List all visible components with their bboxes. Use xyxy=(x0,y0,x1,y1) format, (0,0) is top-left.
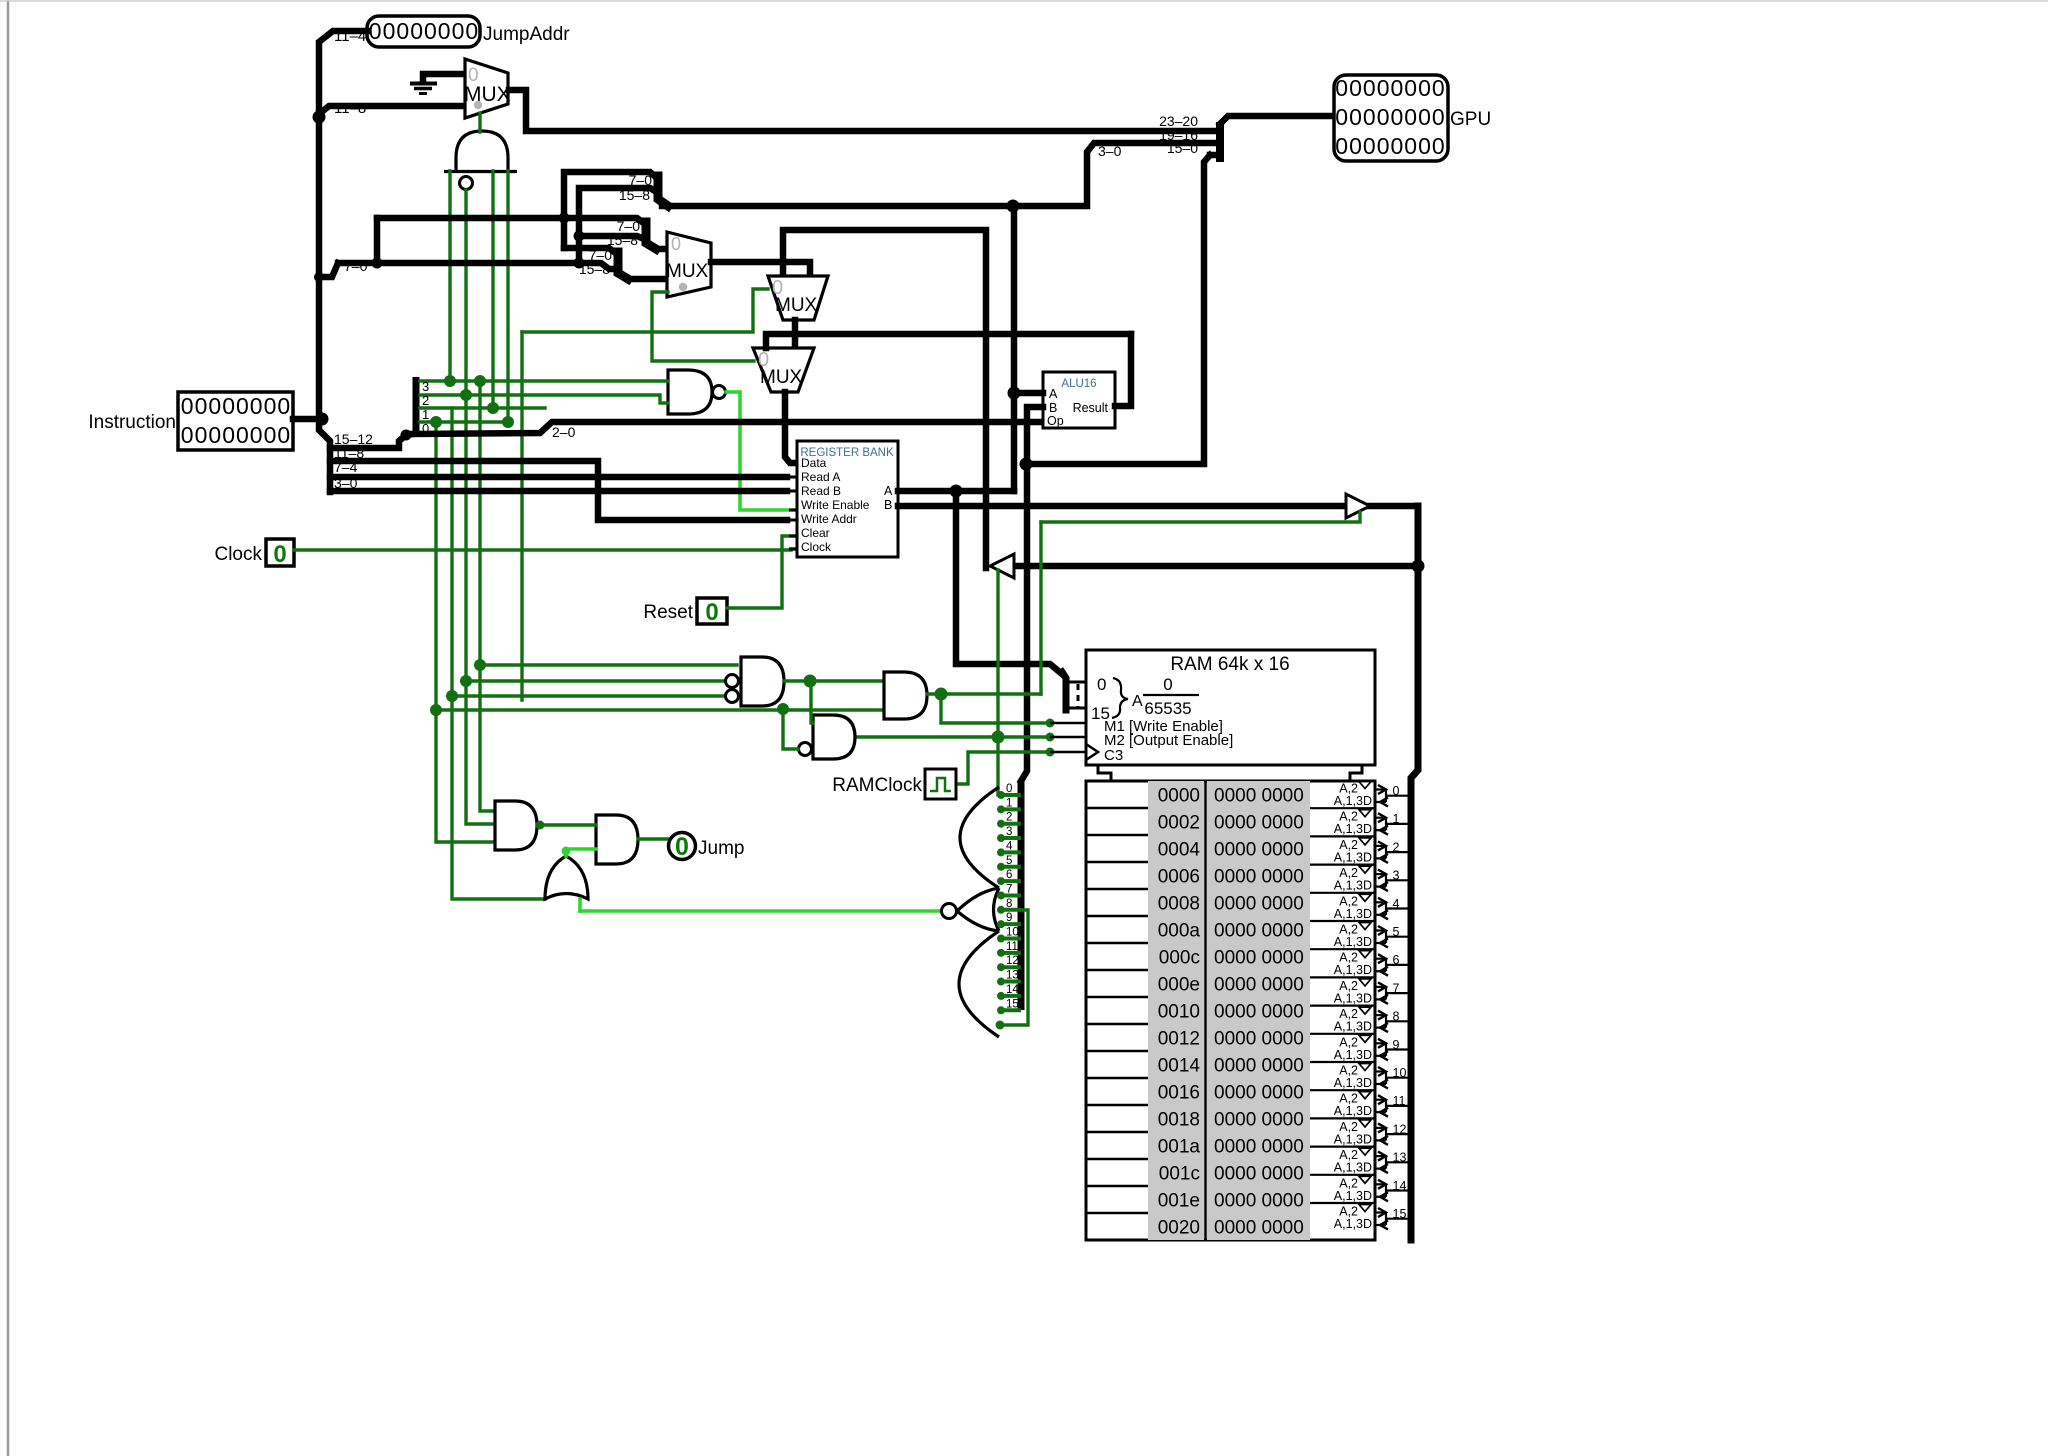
svg-text:0010: 0010 xyxy=(1158,1002,1200,1023)
wire xyxy=(566,849,596,856)
node W2-x466 xyxy=(460,389,472,401)
svg-text:0: 0 xyxy=(369,18,382,44)
svg-text:0: 0 xyxy=(671,234,681,254)
svg-text:10: 10 xyxy=(1006,927,1019,939)
wire xyxy=(506,171,509,422)
output pin GPU xyxy=(1334,75,1448,161)
wire xyxy=(537,823,596,826)
splitter S1 bar xyxy=(413,377,420,434)
wire xyxy=(452,408,545,899)
svg-text:0: 0 xyxy=(396,18,409,44)
wire xyxy=(941,694,1050,723)
pin D7 xyxy=(1000,893,1021,897)
svg-text:Jump: Jump xyxy=(698,838,744,859)
svg-text:A,1,3D: A,1,3D xyxy=(1334,1104,1372,1118)
svg-text:0: 0 xyxy=(1363,104,1376,130)
wire xyxy=(792,320,799,348)
pin xyxy=(1035,420,1043,423)
negation bubble xyxy=(726,690,739,703)
pin D3 xyxy=(1000,836,1021,840)
svg-text:0: 0 xyxy=(1418,133,1431,159)
svg-text:000a: 000a xyxy=(1158,921,1201,942)
svg-text:0000: 0000 xyxy=(1158,786,1200,807)
port 13 xyxy=(1310,1145,1374,1147)
wire xyxy=(1014,563,1418,570)
svg-text:1: 1 xyxy=(422,407,429,422)
svg-text:A,1,3D: A,1,3D xyxy=(1334,850,1372,864)
wire xyxy=(1011,206,1018,491)
screen left border xyxy=(7,0,10,1456)
svg-text:0000 0000: 0000 0000 xyxy=(1214,1029,1304,1050)
port 6 xyxy=(1310,948,1374,950)
svg-text:11: 11 xyxy=(1006,941,1018,953)
pin xyxy=(789,462,797,465)
pin xyxy=(1115,405,1123,408)
svg-text:0: 0 xyxy=(1404,75,1417,101)
svg-text:0: 0 xyxy=(1377,75,1390,101)
svg-text:0: 0 xyxy=(236,422,249,448)
table line xyxy=(1086,1104,1148,1107)
svg-text:Clock: Clock xyxy=(801,540,832,554)
table line xyxy=(1086,861,1148,864)
svg-text:A,1,3D: A,1,3D xyxy=(1334,991,1372,1005)
node W0-x508 xyxy=(502,416,514,428)
table line xyxy=(1086,1158,1148,1161)
port 12 xyxy=(1310,1117,1374,1119)
pin D8 xyxy=(1000,908,1021,912)
svg-text:0000 0000: 0000 0000 xyxy=(1214,813,1304,834)
wire xyxy=(412,422,1043,434)
wire xyxy=(1041,512,1360,522)
wire xyxy=(564,248,618,255)
pin xyxy=(1066,681,1086,684)
wire xyxy=(480,381,495,811)
wire xyxy=(1039,522,1042,694)
svg-text:0: 0 xyxy=(438,18,451,44)
wire xyxy=(785,392,797,463)
svg-text:0: 0 xyxy=(181,422,194,448)
wire xyxy=(784,679,884,682)
wire xyxy=(420,420,510,423)
wire xyxy=(491,171,494,408)
svg-text:0: 0 xyxy=(705,599,718,626)
wire xyxy=(330,434,413,448)
svg-text:MUX: MUX xyxy=(464,83,511,106)
svg-text:JumpAddr: JumpAddr xyxy=(483,24,570,45)
pin xyxy=(789,476,797,479)
clock source RAMClock xyxy=(925,769,956,799)
node xyxy=(1020,458,1033,471)
svg-text:0: 0 xyxy=(1163,675,1172,694)
port 1 xyxy=(1310,807,1374,809)
wire xyxy=(1031,155,1210,464)
svg-text:0018: 0018 xyxy=(1158,1110,1200,1131)
wire xyxy=(319,106,465,114)
pin D2 xyxy=(1000,822,1021,826)
svg-text:0000 0000: 0000 0000 xyxy=(1214,1110,1304,1131)
table connector left xyxy=(1098,765,1111,781)
svg-text:5: 5 xyxy=(1006,855,1012,867)
node xyxy=(446,690,458,702)
node xyxy=(935,688,948,701)
svg-text:7: 7 xyxy=(1006,883,1012,895)
table line xyxy=(1086,996,1148,999)
svg-text:0000 0000: 0000 0000 xyxy=(1214,1191,1304,1212)
svg-text:0: 0 xyxy=(1363,133,1376,159)
svg-text:11–8: 11–8 xyxy=(334,100,366,117)
svg-text:2: 2 xyxy=(1006,812,1012,824)
wire xyxy=(420,379,668,382)
svg-text:15–8: 15–8 xyxy=(619,187,650,203)
node W1-x493 xyxy=(487,402,499,414)
svg-text:0: 0 xyxy=(208,393,221,419)
wire xyxy=(638,837,668,840)
wire xyxy=(294,549,797,550)
svg-text:3–0: 3–0 xyxy=(1098,143,1122,159)
svg-text:Result: Result xyxy=(1073,401,1109,415)
mux MUX1 xyxy=(465,59,508,118)
svg-text:001a: 001a xyxy=(1158,1137,1201,1158)
pin xyxy=(1035,392,1043,395)
svg-text:0: 0 xyxy=(1391,133,1404,159)
wire xyxy=(478,113,481,132)
wire xyxy=(662,203,1013,210)
svg-text:0012: 0012 xyxy=(1158,1029,1200,1050)
pin xyxy=(898,504,906,507)
input button Clock xyxy=(266,539,294,566)
wire xyxy=(452,694,726,697)
wire xyxy=(955,752,1050,784)
pin xyxy=(1050,722,1086,725)
node xyxy=(372,258,383,269)
node xyxy=(1412,560,1425,573)
svg-text:0: 0 xyxy=(222,393,235,419)
svg-text:0: 0 xyxy=(277,393,290,419)
svg-text:12: 12 xyxy=(1006,955,1019,967)
wire xyxy=(509,90,1216,131)
svg-text:0008: 0008 xyxy=(1158,894,1200,915)
wire xyxy=(564,172,658,248)
wire xyxy=(466,395,495,824)
svg-text:0: 0 xyxy=(264,422,277,448)
svg-text:0: 0 xyxy=(424,18,437,44)
port 9 xyxy=(1310,1033,1374,1035)
svg-text:001e: 001e xyxy=(1158,1191,1200,1212)
tunnel arrow right xyxy=(1346,494,1370,518)
port 14 xyxy=(1310,1174,1374,1176)
svg-text:0000 0000: 0000 0000 xyxy=(1214,1056,1304,1077)
table line xyxy=(1086,1131,1148,1134)
wire xyxy=(464,190,467,395)
svg-text:0: 0 xyxy=(675,833,689,861)
wire xyxy=(466,679,726,682)
svg-text:0: 0 xyxy=(1006,783,1012,795)
pin xyxy=(1035,406,1043,409)
wire xyxy=(1220,116,1334,124)
node xyxy=(804,675,817,688)
svg-text:0: 0 xyxy=(1377,104,1390,130)
wire xyxy=(811,679,813,723)
wire xyxy=(579,188,658,262)
port 8 xyxy=(1310,1004,1374,1006)
table line xyxy=(1086,1023,1148,1026)
svg-text:ALU16: ALU16 xyxy=(1061,378,1096,390)
svg-text:Clock: Clock xyxy=(214,544,262,565)
svg-text:0: 0 xyxy=(236,393,249,419)
svg-text:A,1,3D: A,1,3D xyxy=(1334,963,1372,977)
wire xyxy=(855,735,1050,738)
wire xyxy=(927,692,1041,695)
pin D12 xyxy=(1000,965,1021,969)
svg-text:0014: 0014 xyxy=(1158,1056,1201,1077)
pin xyxy=(1066,707,1086,710)
svg-text:0020: 0020 xyxy=(1158,1218,1200,1239)
wire xyxy=(996,570,999,795)
wire xyxy=(374,218,381,263)
svg-text:0000 0000: 0000 0000 xyxy=(1214,975,1304,996)
svg-text:3: 3 xyxy=(422,379,429,394)
svg-text:0006: 0006 xyxy=(1158,867,1200,888)
svg-text:0016: 0016 xyxy=(1158,1083,1200,1104)
wire xyxy=(898,503,1418,510)
svg-text:000c: 000c xyxy=(1159,948,1200,969)
pin xyxy=(789,490,797,493)
node xyxy=(950,485,963,498)
table line xyxy=(1086,888,1148,891)
svg-text:Read A: Read A xyxy=(801,470,840,484)
pin xyxy=(789,509,797,512)
svg-text:15–8: 15–8 xyxy=(579,261,610,277)
svg-text:A,1,3D: A,1,3D xyxy=(1334,879,1372,893)
wire xyxy=(1014,390,1043,397)
svg-text:2–0: 2–0 xyxy=(552,424,576,440)
svg-text:Write Addr: Write Addr xyxy=(801,512,857,526)
svg-text:0: 0 xyxy=(1432,75,1445,101)
port 10 xyxy=(1310,1061,1374,1063)
svg-text:0: 0 xyxy=(1391,75,1404,101)
splitter merger Mb xyxy=(646,222,656,249)
svg-text:0000 0000: 0000 0000 xyxy=(1214,921,1304,942)
svg-text:0: 0 xyxy=(1391,104,1404,130)
ground xyxy=(423,74,465,81)
svg-text:MUX: MUX xyxy=(666,261,709,282)
table line xyxy=(1086,969,1148,972)
pin xyxy=(789,519,797,522)
node xyxy=(430,704,442,716)
svg-text:0: 0 xyxy=(273,541,286,568)
svg-text:C3: C3 xyxy=(1104,747,1123,764)
port 7 xyxy=(1310,976,1374,978)
svg-text:A: A xyxy=(1049,387,1058,401)
nor gate NOR16 xyxy=(960,787,999,888)
svg-text:0000 0000: 0000 0000 xyxy=(1214,867,1304,888)
node W3-x480 xyxy=(474,375,486,387)
svg-text:0000 0000: 0000 0000 xyxy=(1214,1002,1304,1023)
port 15 xyxy=(1310,1202,1374,1204)
ram RAM 64k x 16 xyxy=(1086,650,1375,765)
svg-text:0: 0 xyxy=(277,422,290,448)
wire xyxy=(652,292,754,361)
svg-text:14: 14 xyxy=(1006,984,1019,996)
svg-text:0000 0000: 0000 0000 xyxy=(1214,1218,1304,1239)
wire xyxy=(726,392,797,510)
svg-text:8: 8 xyxy=(1006,898,1012,910)
svg-text:RAMClock: RAMClock xyxy=(832,775,922,796)
pin xyxy=(789,535,797,538)
svg-text:Instruction: Instruction xyxy=(88,412,176,433)
wire xyxy=(727,536,797,608)
pin D6 xyxy=(1000,879,1021,883)
and gate A1 xyxy=(444,131,517,172)
wire xyxy=(420,406,545,409)
and gate A8 xyxy=(813,715,855,759)
svg-text:0: 0 xyxy=(1377,133,1390,159)
svg-text:0: 0 xyxy=(1432,133,1445,159)
svg-text:MUX: MUX xyxy=(775,295,818,316)
pin D9 xyxy=(1000,922,1021,926)
pin D0 xyxy=(1000,793,1021,797)
svg-text:0: 0 xyxy=(1404,133,1417,159)
node xyxy=(460,675,472,687)
alu ALU16 xyxy=(1043,372,1115,428)
svg-text:65535: 65535 xyxy=(1144,699,1191,718)
wire xyxy=(293,416,319,423)
wire xyxy=(898,488,1014,495)
memory table xyxy=(1086,781,1375,1240)
wire xyxy=(956,491,1062,674)
node xyxy=(1008,387,1021,400)
pin D14 xyxy=(1000,994,1021,998)
ram address merger xyxy=(1062,672,1066,710)
wire xyxy=(377,218,646,225)
svg-text:0000 0000: 0000 0000 xyxy=(1214,894,1304,915)
or gate O1 xyxy=(545,856,588,899)
svg-text:1: 1 xyxy=(1006,797,1012,809)
and gate A6 xyxy=(741,657,784,706)
svg-text:MUX: MUX xyxy=(760,367,803,388)
wire xyxy=(436,422,495,842)
and gate A10 xyxy=(596,815,638,864)
port 3 xyxy=(1310,863,1374,865)
wire xyxy=(1411,506,1418,1240)
pin D4 xyxy=(1000,850,1021,854)
mux MUX3 xyxy=(768,276,828,320)
negation bubble xyxy=(460,177,473,190)
input button Reset xyxy=(697,598,727,624)
pin xyxy=(1050,736,1086,739)
svg-text:A,1,3D: A,1,3D xyxy=(1334,1048,1372,1062)
svg-text:3: 3 xyxy=(1006,826,1012,838)
nand gate N1 xyxy=(668,370,712,414)
wire xyxy=(319,31,367,117)
wire xyxy=(420,395,668,403)
svg-text:0000 0000: 0000 0000 xyxy=(1214,948,1304,969)
svg-text:Clear: Clear xyxy=(801,526,830,540)
svg-text:0: 0 xyxy=(1418,75,1431,101)
svg-text:0000 0000: 0000 0000 xyxy=(1214,1164,1304,1185)
svg-text:0: 0 xyxy=(195,422,208,448)
register bank xyxy=(797,441,898,557)
svg-text:A,1,3D: A,1,3D xyxy=(1334,907,1372,921)
wire xyxy=(319,117,330,492)
table line xyxy=(1086,942,1148,945)
svg-text:0: 0 xyxy=(208,422,221,448)
wire xyxy=(1021,407,1043,781)
table line xyxy=(1086,1185,1148,1188)
wire xyxy=(766,334,1131,348)
svg-text:001c: 001c xyxy=(1159,1164,1200,1185)
node xyxy=(992,731,1005,744)
svg-text:Write Enable: Write Enable xyxy=(801,498,870,512)
table connector right xyxy=(1350,765,1362,781)
splitter merger GPU xyxy=(1216,122,1224,162)
svg-text:A: A xyxy=(884,484,893,498)
svg-text:15: 15 xyxy=(1006,998,1019,1010)
svg-text:0: 0 xyxy=(1349,133,1362,159)
svg-text:0: 0 xyxy=(264,393,277,419)
svg-text:0004: 0004 xyxy=(1158,840,1201,861)
splitter bar D xyxy=(1018,781,1025,1010)
wire xyxy=(522,289,768,332)
wire xyxy=(330,461,787,520)
svg-text:0000 0000: 0000 0000 xyxy=(1214,1083,1304,1104)
svg-text:0: 0 xyxy=(465,18,478,44)
svg-text:0: 0 xyxy=(181,393,194,419)
svg-text:Reset: Reset xyxy=(643,602,693,623)
svg-text:15–0: 15–0 xyxy=(1167,140,1198,156)
and gate A9 xyxy=(495,801,537,850)
mux MUX4 xyxy=(753,348,814,392)
node xyxy=(474,659,486,671)
svg-text:0: 0 xyxy=(1097,675,1106,694)
clock triangle xyxy=(1086,744,1098,760)
wire xyxy=(579,236,646,240)
wire xyxy=(578,899,582,911)
svg-text:0: 0 xyxy=(1432,104,1445,130)
wire xyxy=(480,663,737,666)
svg-text:GPU: GPU xyxy=(1450,109,1491,130)
svg-text:Op: Op xyxy=(1047,414,1064,428)
table line xyxy=(1086,834,1148,837)
svg-text:0000 0000: 0000 0000 xyxy=(1214,786,1304,807)
mux MUX2 xyxy=(667,232,711,297)
table line xyxy=(1086,915,1148,918)
splitter merger Mc xyxy=(618,252,628,279)
svg-text:Read B: Read B xyxy=(801,484,841,498)
svg-text:000e: 000e xyxy=(1158,975,1200,996)
svg-text:A,1,3D: A,1,3D xyxy=(1334,1020,1372,1034)
node W3-x450 xyxy=(444,375,456,387)
pin D5 xyxy=(1000,865,1021,869)
svg-text:13: 13 xyxy=(1006,970,1019,982)
negation bubble xyxy=(726,675,739,688)
svg-text:0: 0 xyxy=(222,422,235,448)
svg-text:A: A xyxy=(1132,693,1143,710)
svg-text:A,1,3D: A,1,3D xyxy=(1334,1217,1372,1231)
svg-text:0: 0 xyxy=(1418,104,1431,130)
svg-text:11–4: 11–4 xyxy=(334,28,366,45)
svg-text:0: 0 xyxy=(250,422,263,448)
wire xyxy=(1210,152,1216,159)
svg-text:3–0: 3–0 xyxy=(334,475,358,491)
svg-text:9: 9 xyxy=(1006,912,1012,924)
svg-text:RAM 64k x 16: RAM 64k x 16 xyxy=(1170,654,1289,675)
svg-text:B: B xyxy=(1049,401,1057,415)
wire xyxy=(436,708,884,711)
svg-text:0: 0 xyxy=(410,18,423,44)
port 11 xyxy=(1310,1089,1374,1091)
pin D15 xyxy=(1000,1008,1021,1012)
